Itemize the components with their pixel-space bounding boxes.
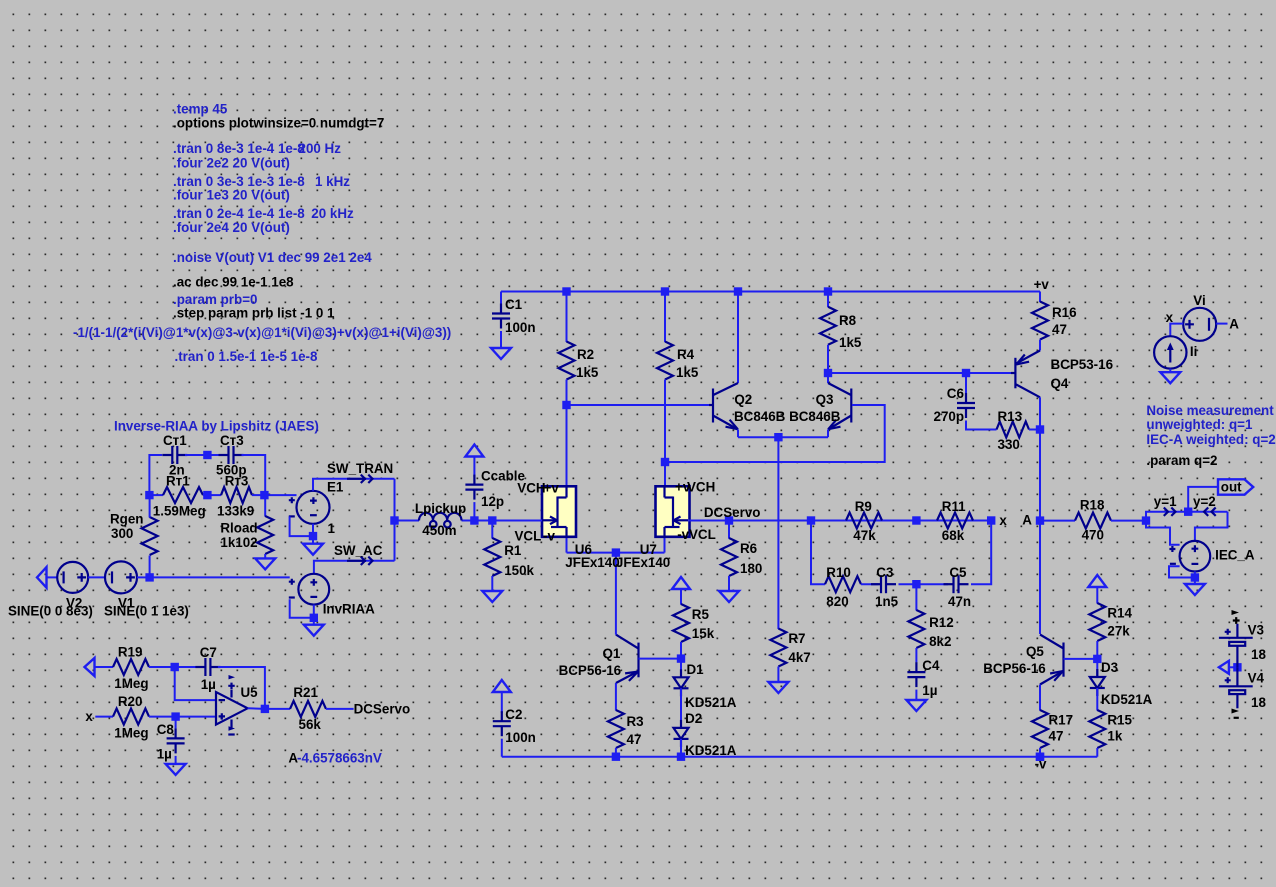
svg-text:SINE(0 1 1e3): SINE(0 1 1e3) bbox=[104, 604, 189, 619]
svg-text:Inverse-RIAA by Lipshitz (JAES: Inverse-RIAA by Lipshitz (JAES) bbox=[114, 419, 319, 434]
svg-text:15k: 15k bbox=[692, 626, 715, 641]
svg-text:D2: D2 bbox=[685, 711, 702, 726]
svg-text:12p: 12p bbox=[481, 494, 504, 509]
svg-text:C3: C3 bbox=[876, 565, 893, 580]
svg-text:U5: U5 bbox=[241, 685, 259, 700]
svg-text:-v: -v bbox=[677, 527, 689, 542]
svg-text:.tran 0 3e-3 1e-3 1e-8: .tran 0 3e-3 1e-3 1e-8 bbox=[173, 174, 305, 189]
svg-text:Lpickup: Lpickup bbox=[415, 501, 466, 516]
svg-text:Rgen: Rgen bbox=[110, 512, 143, 527]
svg-text:DCServo: DCServo bbox=[354, 702, 411, 717]
svg-text:27k: 27k bbox=[1107, 624, 1130, 639]
svg-text:.four 2e4 20 V(out): .four 2e4 20 V(out) bbox=[173, 220, 290, 235]
svg-text:KD521A: KD521A bbox=[1101, 692, 1153, 707]
svg-text:A: A bbox=[1022, 513, 1032, 528]
svg-text:KD521A: KD521A bbox=[685, 695, 737, 710]
svg-text:470: 470 bbox=[1082, 527, 1104, 542]
svg-text:unweighted: q=1: unweighted: q=1 bbox=[1146, 417, 1253, 432]
svg-text:R19: R19 bbox=[118, 645, 143, 660]
svg-text:.options plotwinsize=0 numdgt=: .options plotwinsize=0 numdgt=7 bbox=[173, 116, 384, 131]
svg-text:R18: R18 bbox=[1080, 497, 1105, 512]
svg-text:SINE(0 0 8e3): SINE(0 0 8e3) bbox=[8, 604, 93, 619]
svg-text:18: 18 bbox=[1251, 695, 1266, 710]
svg-text:.tran 0 8e-3 1e-4 1e-8: .tran 0 8e-3 1e-4 1e-8 bbox=[173, 141, 305, 156]
svg-text:R17: R17 bbox=[1049, 713, 1074, 728]
svg-text:133k9: 133k9 bbox=[217, 504, 254, 519]
svg-text:180: 180 bbox=[740, 561, 762, 576]
svg-text:R20: R20 bbox=[118, 694, 143, 709]
svg-text:y=1: y=1 bbox=[1154, 494, 1177, 509]
svg-text:1k: 1k bbox=[1107, 729, 1122, 744]
svg-text:Rload: Rload bbox=[220, 521, 257, 536]
svg-text:R10: R10 bbox=[826, 565, 851, 580]
svg-text:200 Hz: 200 Hz bbox=[299, 141, 342, 156]
svg-text:47n: 47n bbox=[948, 594, 971, 609]
svg-text:R1: R1 bbox=[504, 543, 522, 558]
svg-text:1 kHz: 1 kHz bbox=[315, 174, 350, 189]
svg-text:8k2: 8k2 bbox=[929, 634, 951, 649]
svg-text:1µ: 1µ bbox=[201, 677, 216, 692]
svg-text:KD521A: KD521A bbox=[685, 743, 737, 758]
svg-text:150k: 150k bbox=[504, 563, 534, 578]
svg-text:R21: R21 bbox=[293, 685, 318, 700]
svg-text:Q5: Q5 bbox=[1026, 644, 1044, 659]
svg-text:R14: R14 bbox=[1107, 606, 1132, 621]
svg-text:C4: C4 bbox=[922, 658, 940, 673]
svg-text:.tran 0 1.5e-1 1e-5 1e-8: .tran 0 1.5e-1 1e-5 1e-8 bbox=[175, 349, 318, 364]
svg-text:1.59Meg: 1.59Meg bbox=[153, 504, 206, 519]
svg-text:R6: R6 bbox=[740, 541, 757, 556]
svg-text:Q2: Q2 bbox=[734, 392, 752, 407]
svg-text:C7: C7 bbox=[200, 645, 217, 660]
svg-text:100n: 100n bbox=[505, 730, 536, 745]
svg-text:InvRIAA: InvRIAA bbox=[323, 602, 375, 617]
svg-text:x: x bbox=[999, 513, 1007, 528]
svg-text:R3: R3 bbox=[627, 714, 644, 729]
svg-text:47: 47 bbox=[1052, 322, 1067, 337]
svg-text:1µ: 1µ bbox=[157, 747, 172, 762]
svg-text:1: 1 bbox=[328, 521, 336, 536]
svg-text:47: 47 bbox=[1049, 729, 1064, 744]
svg-text:D1: D1 bbox=[687, 662, 705, 677]
svg-text:x: x bbox=[1166, 310, 1174, 325]
svg-text:R5: R5 bbox=[692, 607, 710, 622]
svg-text:18: 18 bbox=[1251, 647, 1266, 662]
svg-text:y=2: y=2 bbox=[1193, 494, 1216, 509]
svg-text:Q4: Q4 bbox=[1051, 376, 1069, 391]
svg-text:R13: R13 bbox=[998, 409, 1023, 424]
svg-text:R15: R15 bbox=[1107, 713, 1132, 728]
svg-text:C1: C1 bbox=[505, 297, 523, 312]
svg-text:1k102: 1k102 bbox=[220, 535, 257, 550]
svg-text:C6: C6 bbox=[947, 386, 964, 401]
svg-text:R2: R2 bbox=[577, 347, 594, 362]
svg-text:C2: C2 bbox=[505, 707, 522, 722]
svg-text:x: x bbox=[85, 709, 93, 724]
svg-text:1Meg: 1Meg bbox=[114, 726, 148, 741]
svg-text:1k5: 1k5 bbox=[839, 335, 862, 350]
svg-text:IEC-A weighted: q=2: IEC-A weighted: q=2 bbox=[1146, 432, 1275, 447]
svg-text:DCServo: DCServo bbox=[704, 505, 761, 520]
svg-text:47k: 47k bbox=[853, 528, 876, 543]
svg-text:1n5: 1n5 bbox=[875, 594, 899, 609]
svg-text:V3: V3 bbox=[1248, 623, 1264, 638]
svg-text:450m: 450m bbox=[422, 523, 456, 538]
svg-text:1Meg: 1Meg bbox=[114, 676, 148, 691]
svg-text:+v: +v bbox=[1034, 277, 1050, 292]
svg-text:820: 820 bbox=[826, 594, 848, 609]
svg-text:Q1: Q1 bbox=[603, 646, 621, 661]
svg-text:R7: R7 bbox=[788, 631, 805, 646]
svg-text:C5: C5 bbox=[949, 565, 967, 580]
svg-text:R9: R9 bbox=[855, 499, 872, 514]
svg-text:Rт3: Rт3 bbox=[225, 474, 249, 489]
svg-text:Cт1: Cт1 bbox=[163, 433, 187, 448]
svg-text:1k5: 1k5 bbox=[676, 365, 699, 380]
svg-text:Ccable: Ccable bbox=[481, 469, 525, 484]
svg-text:R16: R16 bbox=[1052, 305, 1077, 320]
svg-text:4k7: 4k7 bbox=[788, 650, 810, 665]
svg-text:Vi: Vi bbox=[1193, 293, 1205, 308]
svg-text:BCP53-16: BCP53-16 bbox=[1051, 357, 1114, 372]
svg-text:A: A bbox=[1229, 317, 1239, 332]
svg-text:JFEx140: JFEx140 bbox=[616, 555, 670, 570]
svg-text:300: 300 bbox=[111, 526, 133, 541]
svg-text:20 kHz: 20 kHz bbox=[311, 206, 354, 221]
svg-text:.temp 45: .temp 45 bbox=[173, 101, 228, 116]
svg-text:.noise V(out) V1 dec 99 2e1 2e: .noise V(out) V1 dec 99 2e1 2e4 bbox=[173, 250, 372, 265]
svg-text:68k: 68k bbox=[942, 528, 965, 543]
svg-text:R12: R12 bbox=[929, 615, 954, 630]
svg-text:R4: R4 bbox=[677, 347, 695, 362]
svg-text:BCP56-16: BCP56-16 bbox=[983, 661, 1046, 676]
svg-text:-v: -v bbox=[1035, 757, 1047, 772]
svg-text:Cт3: Cт3 bbox=[220, 433, 244, 448]
svg-text:.param q=2: .param q=2 bbox=[1146, 453, 1217, 468]
svg-text:V4: V4 bbox=[1248, 671, 1265, 686]
svg-text:VCL: VCL bbox=[515, 529, 542, 544]
svg-text:BCP56-16: BCP56-16 bbox=[559, 663, 622, 678]
svg-text:D3: D3 bbox=[1101, 660, 1118, 675]
svg-text:VCL: VCL bbox=[689, 527, 716, 542]
svg-text:1k5: 1k5 bbox=[576, 365, 599, 380]
svg-text:Noise measurement: Noise measurement bbox=[1146, 403, 1274, 418]
svg-text:BC846B BC846B: BC846B BC846B bbox=[734, 409, 841, 424]
svg-text:.four 2e2 20 V(out): .four 2e2 20 V(out) bbox=[173, 155, 290, 170]
svg-text:out: out bbox=[1221, 480, 1242, 495]
svg-text:Q3: Q3 bbox=[816, 392, 834, 407]
svg-text:C8: C8 bbox=[157, 722, 175, 737]
svg-text:56k: 56k bbox=[299, 717, 322, 732]
svg-text:.four 1e3 20 V(out): .four 1e3 20 V(out) bbox=[173, 188, 290, 203]
svg-text:-4.6578663nV: -4.6578663nV bbox=[297, 751, 382, 766]
svg-text:.step param prb list -1 0 1: .step param prb list -1 0 1 bbox=[173, 306, 335, 321]
svg-text:VCH: VCH bbox=[687, 480, 715, 495]
svg-text:270p: 270p bbox=[934, 409, 965, 424]
svg-text:SW_TRAN: SW_TRAN bbox=[327, 461, 393, 476]
svg-text:JFEx140: JFEx140 bbox=[565, 555, 619, 570]
svg-text:100n: 100n bbox=[505, 320, 536, 335]
svg-text:-1/(1-1/(2*(i(Vi)@1*v(x)@3-v(x: -1/(1-1/(2*(i(Vi)@1*v(x)@3-v(x)@1*i(Vi)@… bbox=[73, 325, 451, 340]
svg-text:Ii: Ii bbox=[1190, 344, 1197, 359]
svg-text:330: 330 bbox=[998, 437, 1020, 452]
svg-text:.tran 0 2e-4 1e-4 1e-8: .tran 0 2e-4 1e-4 1e-8 bbox=[173, 206, 305, 221]
svg-text:1µ: 1µ bbox=[922, 683, 937, 698]
svg-text:.ac dec 99 1e-1 1e8: .ac dec 99 1e-1 1e8 bbox=[173, 274, 294, 289]
svg-text:Rт1: Rт1 bbox=[166, 474, 190, 489]
svg-text:R11: R11 bbox=[942, 499, 966, 514]
svg-text:+v: +v bbox=[544, 480, 560, 495]
svg-text:47: 47 bbox=[627, 732, 642, 747]
svg-text:-v: -v bbox=[543, 529, 555, 544]
svg-text:IEC_A: IEC_A bbox=[1215, 548, 1255, 563]
svg-text:E1: E1 bbox=[327, 480, 344, 495]
svg-text:R8: R8 bbox=[839, 313, 857, 328]
svg-text:SW_AC: SW_AC bbox=[334, 543, 383, 558]
